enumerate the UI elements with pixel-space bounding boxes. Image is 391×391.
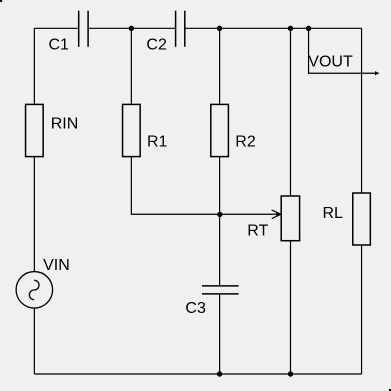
svg-text:R2: R2 <box>235 133 256 150</box>
svg-text:C2: C2 <box>146 36 167 53</box>
svg-text:C1: C1 <box>49 36 70 53</box>
svg-text:RIN: RIN <box>51 116 79 133</box>
svg-text:RT: RT <box>247 223 268 240</box>
svg-text:VIN: VIN <box>43 257 70 274</box>
svg-text:R1: R1 <box>147 133 168 150</box>
svg-text:VOUT: VOUT <box>308 53 353 70</box>
svg-text:RL: RL <box>323 205 344 222</box>
svg-text:C3: C3 <box>185 300 206 317</box>
